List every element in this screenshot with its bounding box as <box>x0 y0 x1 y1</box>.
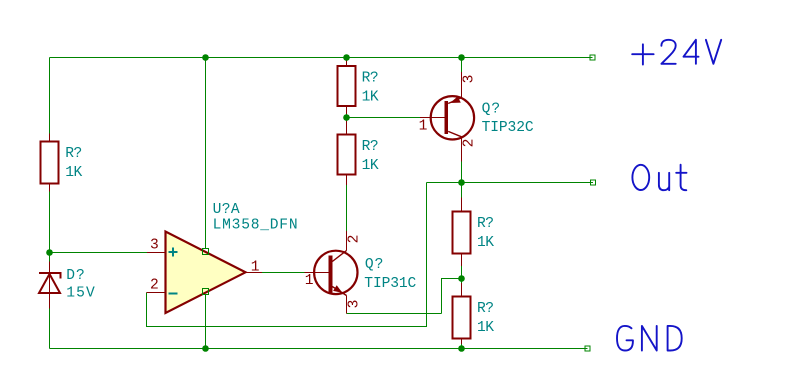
wire op-amp V- to GND rail <box>205 295 207 349</box>
wire op-amp output to Q1 base <box>262 272 305 274</box>
svg-text:TIP32C: TIP32C <box>482 120 534 136</box>
resistor R5 body <box>453 297 471 339</box>
wire divider junction to Q2 base <box>347 117 421 119</box>
resistor R3 body <box>338 135 356 175</box>
svg-text:R?: R? <box>362 70 379 86</box>
junction GND rail at op-amp V- <box>202 345 209 352</box>
wire junction to op-amp + input <box>50 252 148 254</box>
wire emitter run up to divider mid junction <box>442 279 462 314</box>
junction top rail at Q2 emitter <box>458 54 465 61</box>
transistor Q1 emitter diagonal <box>332 287 346 296</box>
resistor R2 pins <box>346 58 348 115</box>
transistor Q2 emitter arrow <box>450 97 461 104</box>
zener diode D1 pin <box>49 262 51 309</box>
svg-text:2: 2 <box>150 277 159 293</box>
svg-text:3: 3 <box>461 75 477 84</box>
node +24V wire end square <box>590 55 595 60</box>
svg-text:R?: R? <box>362 139 379 155</box>
transistor Q2 base bar <box>444 101 448 134</box>
transistor Q2 emitter diagonal <box>448 98 461 104</box>
node label GND <box>617 326 682 351</box>
node label +24V <box>632 40 721 65</box>
wire left column middle segment <box>49 192 51 262</box>
wire R3 bottom to Q1 collector <box>346 185 348 231</box>
junction top rail at op-amp V+ <box>202 54 209 61</box>
transistor Q1 base pin <box>305 272 329 274</box>
svg-text:15V: 15V <box>66 286 95 302</box>
svg-text:TIP31C: TIP31C <box>364 276 416 292</box>
svg-text:2: 2 <box>346 235 362 244</box>
resistor R3 pins <box>346 121 348 185</box>
op-amp U1 plus input marker <box>169 248 178 257</box>
zener diode D1 anode triangle <box>39 274 60 293</box>
svg-text:Q?: Q? <box>365 257 384 273</box>
op-amp U1 minus input marker <box>169 293 178 295</box>
svg-text:Q?: Q? <box>482 102 501 118</box>
op-amp U1 V+ pin square <box>203 249 209 255</box>
resistor R5 pins <box>461 283 463 344</box>
svg-text:3: 3 <box>150 238 159 254</box>
transistor Q1 base bar <box>328 256 332 293</box>
resistor R4 body <box>453 212 471 254</box>
transistor Q1 collector diagonal <box>332 251 346 262</box>
wire R5 bottom to GND rail <box>461 344 463 349</box>
svg-text:1K: 1K <box>362 89 379 105</box>
svg-text:R?: R? <box>477 301 494 317</box>
svg-text:R?: R? <box>477 216 494 232</box>
wire Q2 collector to R4 top <box>461 162 463 198</box>
svg-text:1K: 1K <box>477 235 494 251</box>
transistor Q2 collector pin <box>461 137 463 162</box>
resistor R4 pins <box>461 198 463 267</box>
wire feedback op-amp pin2 to Out node <box>147 183 427 327</box>
op-amp U1 V- pin square <box>203 289 209 295</box>
junction R2/R3 divider <box>343 114 350 121</box>
transistor Q1 emitter arrow <box>333 285 342 293</box>
transistor Q2 circle <box>431 96 474 139</box>
junction GND rail at R5 <box>458 345 465 352</box>
op-amp U1 pin 1 stub <box>246 272 263 274</box>
wire R2 to R3 through junction <box>346 114 348 121</box>
svg-text:3: 3 <box>346 300 362 309</box>
wire GND rail <box>50 348 588 350</box>
wire R4 bottom to R5 top <box>461 266 463 283</box>
svg-text:1: 1 <box>419 118 428 134</box>
svg-text:LM358_DFN: LM358_DFN <box>213 218 298 234</box>
transistor Q2 emitter pin <box>461 72 463 98</box>
wire op-amp V+ to +24V rail <box>205 58 207 249</box>
junction top rail at R2 <box>343 54 350 61</box>
junction Out node <box>458 179 465 186</box>
node label Out <box>632 165 686 191</box>
resistor R2 body <box>338 66 356 106</box>
zener diode D1 cathode bar <box>39 273 61 278</box>
wire +24V rail <box>50 57 593 59</box>
svg-text:U?A: U?A <box>213 202 240 218</box>
op-amp U1 pin 3 stub <box>147 252 166 254</box>
junction left column at + input <box>46 249 53 256</box>
transistor Q2 collector diagonal <box>448 131 461 136</box>
transistor Q2 base pin <box>420 117 444 119</box>
transistor Q1 circle <box>314 251 357 294</box>
wire Out rail <box>427 182 594 184</box>
node GND wire end square <box>585 346 590 351</box>
svg-text:1K: 1K <box>477 320 494 336</box>
svg-text:1: 1 <box>251 259 260 275</box>
svg-text:1K: 1K <box>362 158 379 174</box>
svg-text:D?: D? <box>66 268 85 284</box>
op-amp U1 triangle body <box>166 232 246 314</box>
wire left column top segment <box>49 58 51 134</box>
junction R4/R5 divider <box>458 275 465 282</box>
op-amp U1 pin 2 stub <box>147 292 166 294</box>
svg-text:1K: 1K <box>65 165 82 181</box>
wire Q2 emitter to +24V rail <box>461 58 463 73</box>
transistor Q1 emitter pin <box>346 296 348 314</box>
svg-text:1: 1 <box>305 273 314 289</box>
resistor R1 body <box>41 142 59 184</box>
transistor Q1 collector pin <box>346 231 348 251</box>
node Out wire end square <box>591 180 596 185</box>
wire left column bottom segment <box>49 309 51 349</box>
svg-text:2: 2 <box>461 139 477 148</box>
svg-text:R?: R? <box>65 146 82 162</box>
wire Q1 emitter horizontal <box>347 313 442 315</box>
resistor R1 pins <box>49 134 51 192</box>
